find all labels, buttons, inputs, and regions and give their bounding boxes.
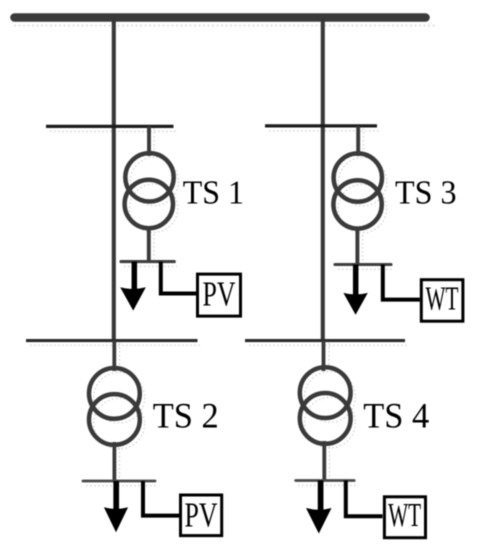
feeder wire right	[321, 18, 325, 342]
svg-text:WT: WT	[426, 281, 459, 318]
wire busbar1 to transformer TS3	[356, 126, 360, 156]
main bus (top busbar)	[15, 13, 426, 22]
transformer TS1	[125, 153, 174, 228]
wire load bar to PV box lower-left	[143, 481, 179, 516]
PV box lower-left	[181, 495, 222, 536]
load arrow lower-left	[104, 481, 128, 532]
busbar row1 left	[46, 125, 174, 128]
transformer TS4	[300, 367, 351, 444]
wire load bar to WT box lower-right	[346, 481, 383, 517]
svg-text:PV: PV	[185, 495, 218, 534]
wire TS3 to load bar	[355, 227, 359, 265]
WT box upper-right	[421, 280, 463, 322]
load bar upper-right	[335, 263, 391, 266]
feeder wire left	[112, 18, 116, 342]
wire busbar2 to transformer TS4	[322, 341, 326, 371]
wire TS1 to load bar	[147, 226, 151, 262]
ghost artifact dotted lines (image compression echoes)	[30, 128, 408, 486]
load arrow upper-right	[343, 265, 367, 315]
load arrow upper-left	[120, 262, 146, 311]
transformer TS3	[333, 153, 382, 228]
load bar lower-right	[296, 479, 355, 482]
wire TS2 to load bar	[113, 442, 117, 481]
svg-text:TS 3: TS 3	[395, 175, 457, 212]
wire TS4 to load bar	[322, 441, 326, 481]
busbar row1 right	[265, 124, 377, 127]
svg-text:TS 2: TS 2	[153, 395, 219, 435]
svg-text:TS 4: TS 4	[363, 396, 429, 436]
busbar row2 right	[245, 339, 405, 342]
WT box lower-right	[384, 497, 425, 538]
ghost dotted line under main bus	[14, 25, 436, 27]
svg-text:TS 1: TS 1	[183, 175, 244, 212]
PV box upper-left	[198, 274, 241, 316]
wire load bar to PV box upper-left	[161, 262, 197, 294]
load bar upper-left	[121, 260, 174, 263]
busbar row2 left	[26, 339, 198, 342]
svg-text:WT: WT	[388, 497, 421, 534]
load arrow lower-right	[306, 481, 332, 534]
transformer TS2	[89, 368, 140, 445]
load bar lower-left	[83, 480, 155, 483]
wire busbar1 to transformer TS1	[147, 126, 151, 156]
wire busbar2 to transformer TS2	[112, 341, 116, 371]
wire load bar to WT box upper-right	[383, 265, 420, 300]
svg-text:PV: PV	[203, 275, 236, 314]
